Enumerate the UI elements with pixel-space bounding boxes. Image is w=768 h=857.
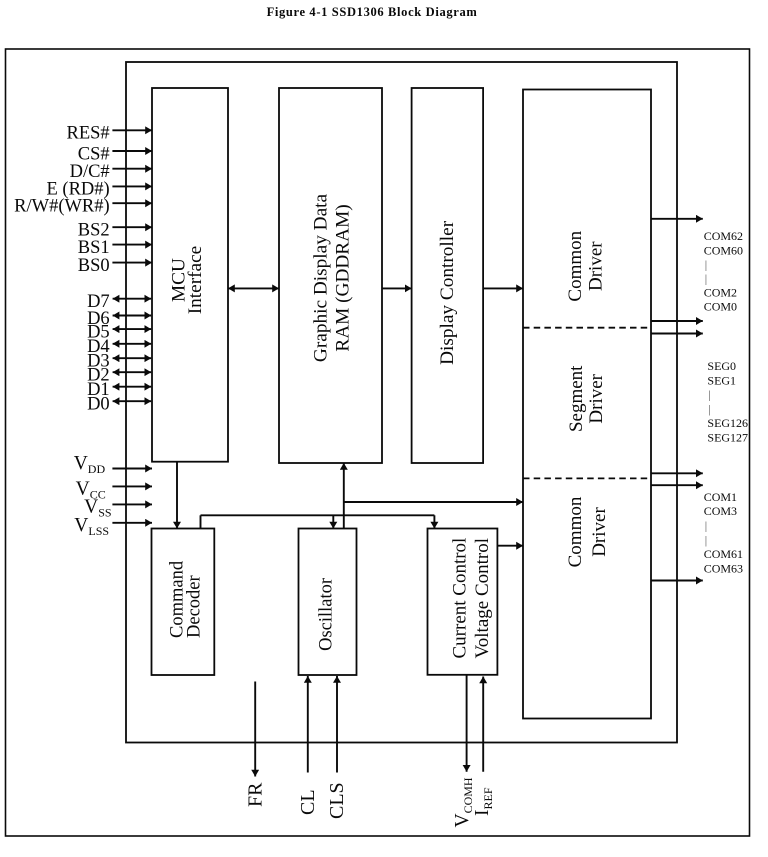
output arrow: common driver lower at divider: [651, 484, 703, 486]
svg-text:Driver: Driver: [589, 507, 610, 557]
pin VCOMH: [452, 675, 475, 828]
output arrow: common driver upper at divider: [651, 320, 703, 322]
pin E (RD#): [46, 180, 152, 200]
block U3: Display Controller: [412, 88, 484, 463]
svg-text:Oscillator: Oscillator: [317, 578, 337, 651]
svg-text:COM1COM3||COM61COM63: COM1COM3||COM61COM63: [704, 490, 743, 576]
svg-text:Decoder: Decoder: [185, 575, 205, 638]
pin D/C#: [70, 162, 152, 182]
pin VCC: [76, 479, 152, 502]
block U6: Oscillator: [299, 529, 357, 676]
pin IREF: [472, 677, 495, 817]
svg-text:Common: Common: [565, 496, 586, 567]
wire: MCU Interface to GDDRAM bus: [228, 287, 279, 289]
block U1: MCU Interface: [152, 88, 228, 462]
svg-text:Figure 4-1 SSD1306 Block Diagr: Figure 4-1 SSD1306 Block Diagram: [267, 5, 478, 19]
wire: GDDRAM to Display Controller: [382, 287, 412, 289]
svg-text:CL: CL: [297, 789, 319, 815]
wire: bus drop to Command Decoder: [200, 515, 202, 528]
block U2: Graphic Display Data RAM (GDDRAM): [279, 88, 382, 463]
block U7: Current Control Voltage Control: [428, 529, 498, 675]
pin CL: [297, 676, 319, 815]
svg-text:Common: Common: [565, 230, 586, 301]
svg-text:VCOMH: VCOMH: [452, 777, 475, 827]
block U4: driver array (common/segment drivers): [523, 90, 651, 719]
pin D4: [87, 337, 151, 357]
pin D5: [87, 322, 151, 342]
svg-text:Voltage Control: Voltage Control: [472, 538, 493, 659]
label: Common Driver (bottom): [565, 496, 610, 567]
wire: bus drop to Oscillator: [332, 515, 334, 528]
wire: MCU Interface to Command Decoder: [176, 462, 178, 529]
pin FR: [244, 682, 266, 808]
svg-text:COM62COM60||COM2COM0: COM62COM60||COM2COM0: [704, 229, 743, 313]
label: Segment Driver: [566, 365, 607, 432]
svg-text:Interface: Interface: [185, 246, 206, 315]
output arrow: COM61/COM63 group: [651, 580, 703, 582]
output arrow: segment driver lower at divider: [651, 472, 703, 474]
pin D7: [87, 292, 151, 312]
svg-text:R/W#(WR#): R/W#(WR#): [14, 197, 110, 217]
svg-text:Driver: Driver: [586, 241, 607, 291]
wire: horizontal to driver array: [344, 501, 523, 503]
svg-text:RES#: RES#: [67, 124, 110, 144]
wire: horizontal bus: [201, 514, 435, 516]
svg-text:Graphic Display Data: Graphic Display Data: [310, 194, 331, 363]
wire: Display Controller to driver array: [483, 287, 523, 289]
pin BS0: [78, 256, 152, 276]
svg-text:BS1: BS1: [78, 238, 110, 258]
wire: bus drop to Current Control: [433, 515, 435, 528]
label: Common Driver (top): [565, 230, 607, 301]
chip boundary: [126, 62, 677, 743]
wire: Current Control to driver array: [497, 545, 523, 547]
pin VSS: [84, 497, 152, 520]
pin VLSS: [74, 515, 152, 538]
pin CS#: [78, 144, 152, 164]
svg-text:Driver: Driver: [586, 373, 607, 423]
svg-text:Display Controller: Display Controller: [437, 220, 458, 365]
pin D2: [87, 366, 151, 386]
pin BS1: [78, 238, 152, 258]
pin D0: [87, 395, 151, 415]
pin CLS: [326, 676, 348, 819]
divider: dashed line 1: [523, 327, 651, 329]
svg-text:IREF: IREF: [472, 787, 495, 816]
divider: dashed line 2: [523, 477, 651, 479]
svg-text:D0: D0: [87, 395, 110, 415]
svg-text:RAM (GDDRAM): RAM (GDDRAM): [333, 204, 354, 351]
pin D3: [87, 352, 151, 372]
svg-text:SEG0SEG1||SEG126SEG127: SEG0SEG1||SEG126SEG127: [707, 359, 748, 445]
svg-text:BS0: BS0: [78, 256, 110, 276]
pin D1: [87, 380, 151, 400]
svg-text:FR: FR: [244, 782, 266, 807]
pin VDD: [74, 453, 152, 476]
pin R/W#(WR#): [14, 197, 152, 217]
svg-text:Current Control: Current Control: [450, 538, 471, 659]
svg-text:VDD: VDD: [74, 453, 106, 476]
svg-text:CLS: CLS: [326, 782, 348, 819]
pin D6: [87, 309, 151, 329]
output arrow: segment driver upper at divider: [651, 333, 703, 335]
pin BS2: [78, 221, 152, 241]
block U5: Command Decoder: [152, 529, 215, 676]
svg-text:Segment: Segment: [566, 365, 587, 432]
output arrow: COM62/COM60 group: [651, 218, 703, 220]
wire: vertical bus up to GDDRAM: [343, 463, 345, 529]
pin RES#: [67, 124, 152, 144]
